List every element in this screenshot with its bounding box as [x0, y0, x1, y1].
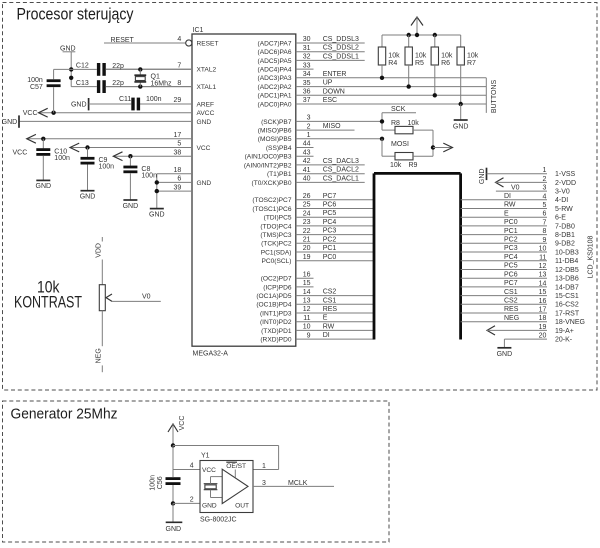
svg-text:(ADC7)PA7: (ADC7)PA7	[258, 40, 292, 47]
svg-text:11: 11	[303, 315, 310, 322]
wire net PC7 pin 26 to bus	[296, 193, 374, 200]
svg-text:(SCK)PB7: (SCK)PB7	[261, 119, 292, 126]
IC1 right pin-name (TDI)PC5	[264, 215, 292, 222]
svg-text:DI: DI	[323, 332, 330, 339]
resistor R6 10k	[431, 35, 453, 98]
IC1 right pin-name (ADC5)PA5	[258, 58, 292, 65]
LCD pin 12 net PC5	[461, 263, 579, 274]
svg-text:15: 15	[303, 280, 311, 287]
capacitor C11 100n with ground bar	[71, 96, 162, 111]
capacitor C10 100n with junction and ground	[36, 137, 70, 191]
IC IC1 MEGA32-A body	[192, 27, 296, 358]
stub pin 43	[296, 149, 314, 156]
wire net DI pin 9 to bus	[296, 332, 374, 339]
wire net PC2 pin 21 to bus	[296, 236, 374, 243]
svg-text:(TOSC2)PC7: (TOSC2)PC7	[252, 197, 291, 204]
svg-text:13: 13	[303, 298, 311, 305]
svg-text:(TOSC1)PC6: (TOSC1)PC6	[252, 206, 291, 213]
svg-text:RES: RES	[323, 306, 338, 313]
svg-text:37: 37	[303, 97, 311, 104]
svg-text:32: 32	[303, 54, 311, 61]
IC1 left pin-name XTAL2	[197, 67, 217, 74]
svg-text:GND: GND	[202, 503, 217, 510]
svg-text:13-DB6: 13-DB6	[555, 276, 579, 283]
svg-text:PC2: PC2	[323, 236, 337, 243]
svg-text:16: 16	[539, 298, 547, 305]
IC1 right pin-name (AIN1/OC0)PB3	[245, 154, 292, 161]
wire net PC0 pin 19 to bus	[296, 254, 374, 261]
svg-text:E: E	[323, 315, 328, 322]
svg-text:100n: 100n	[149, 475, 156, 491]
IC1 right pin-name (INT0)PD2	[260, 319, 292, 326]
svg-text:CS_DDSL3: CS_DDSL3	[323, 36, 359, 43]
svg-text:MCLK: MCLK	[288, 480, 308, 487]
IC1 right pin-name (OC2)PD7	[261, 276, 292, 283]
svg-text:VDD: VDD	[95, 243, 102, 258]
LCD pin 10 net PC3	[461, 245, 579, 256]
bus bar right vertical	[459, 173, 462, 339]
IC1 right pin-name (T0/XCK)PB0	[252, 180, 292, 187]
wire net E pin 11 to bus	[296, 315, 374, 322]
node MOSI label + vertical	[380, 137, 409, 157]
power VCC arrow (buttons)	[411, 17, 423, 35]
svg-text:20-K-: 20-K-	[555, 337, 573, 344]
svg-text:GND: GND	[80, 194, 96, 201]
wire net CS_DDSL2 pin 31	[296, 45, 365, 52]
svg-text:10k: 10k	[441, 53, 453, 60]
LCD pin 11 net PC4	[461, 254, 579, 265]
svg-text:3: 3	[542, 185, 546, 192]
IC1 right pin-name (ADC1)PA1	[258, 93, 292, 100]
LCD pin 18 net NEG	[461, 315, 585, 326]
IC1 right pin-name (TMS)PC3	[260, 232, 291, 239]
svg-text:25: 25	[303, 202, 311, 209]
svg-text:VCC: VCC	[202, 467, 216, 474]
LCD pin 2 VDD with arrow	[496, 176, 577, 187]
svg-text:CS_DACL1: CS_DACL1	[323, 175, 359, 182]
wire net CS_DACL1 pin 40	[296, 175, 365, 182]
svg-text:(ADC2)PA2: (ADC2)PA2	[258, 84, 292, 91]
svg-text:10-DB3: 10-DB3	[555, 249, 579, 256]
svg-text:(ADC3)PA3: (ADC3)PA3	[258, 75, 292, 82]
svg-text:DI: DI	[504, 193, 511, 200]
svg-text:18: 18	[174, 167, 182, 174]
svg-text:LCD_KS0108: LCD_KS0108	[587, 235, 594, 278]
svg-text:(AIN0/INT2)PB2: (AIN0/INT2)PB2	[244, 162, 292, 169]
svg-text:MISO: MISO	[323, 123, 341, 130]
wire net PC6 pin 25 to bus	[296, 202, 374, 209]
svg-text:31: 31	[303, 45, 311, 52]
svg-text:17: 17	[539, 307, 547, 314]
svg-text:8-DB1: 8-DB1	[555, 232, 575, 239]
svg-text:VCC: VCC	[197, 145, 211, 152]
wire XTAL1 pin 8	[106, 80, 192, 87]
svg-text:4-DI: 4-DI	[555, 197, 568, 204]
svg-text:CS1: CS1	[504, 289, 518, 296]
wire net UP pin 35	[296, 80, 487, 87]
svg-text:PC5: PC5	[504, 263, 518, 270]
svg-text:R4: R4	[388, 60, 397, 67]
svg-text:8: 8	[542, 228, 546, 235]
svg-text:PC4: PC4	[504, 254, 518, 261]
svg-text:35: 35	[303, 80, 311, 87]
svg-text:(INT0)PD2: (INT0)PD2	[260, 319, 292, 326]
svg-text:CS_DACL3: CS_DACL3	[323, 158, 359, 165]
IC1 right pin-name (ADC0)PA0	[258, 101, 292, 108]
svg-text:19: 19	[539, 324, 547, 331]
svg-text:SG-8002JC: SG-8002JC	[200, 517, 237, 524]
wire net MCLK pin 3	[253, 480, 334, 487]
svg-text:PC7: PC7	[323, 193, 337, 200]
capacitor C12 22p	[54, 63, 192, 76]
svg-text:100n: 100n	[146, 96, 162, 103]
svg-text:MEGA32-A: MEGA32-A	[193, 351, 229, 358]
svg-text:43: 43	[303, 149, 311, 156]
wire buttons bracket	[485, 78, 487, 113]
wire OE/ST loop	[173, 446, 279, 471]
svg-text:AREF: AREF	[197, 101, 215, 108]
svg-text:18: 18	[539, 315, 547, 322]
wire right vertical R8-R9 with junction and arrow	[431, 130, 453, 156]
svg-text:11-DB4: 11-DB4	[555, 258, 578, 265]
junction dot OE loop	[171, 443, 175, 447]
svg-text:Generator 25Mhz: Generator 25Mhz	[11, 407, 118, 423]
svg-text:(ADC1)PA1: (ADC1)PA1	[258, 93, 292, 100]
stub pin 44	[296, 141, 314, 148]
Y1 inside labels	[202, 462, 249, 509]
wire VCC pin 4	[173, 446, 200, 470]
svg-text:22p: 22p	[112, 80, 124, 87]
svg-text:VCC: VCC	[23, 110, 38, 117]
ground symbol (generator)	[166, 503, 183, 532]
IC1 right pin-name (TOSC1)PC6	[252, 206, 291, 213]
svg-text:39: 39	[174, 184, 182, 191]
svg-text:33: 33	[303, 62, 311, 69]
svg-text:PC3: PC3	[504, 245, 518, 252]
svg-text:12: 12	[539, 263, 547, 270]
svg-text:DOWN: DOWN	[323, 88, 345, 95]
svg-text:GND: GND	[453, 123, 469, 130]
svg-text:VCC: VCC	[13, 150, 28, 157]
svg-text:NEG: NEG	[95, 348, 102, 363]
svg-text:GND: GND	[149, 211, 165, 218]
section box: Generator 25Mhz	[3, 401, 390, 542]
LCD pin 16 net CS2	[461, 298, 579, 309]
svg-text:13: 13	[539, 272, 547, 279]
wire net CS_DDSL3 pin 30	[296, 36, 365, 43]
svg-text:9-DB2: 9-DB2	[555, 241, 575, 248]
pin number 6 wire GND	[157, 176, 192, 183]
svg-text:(MOSI)PB5: (MOSI)PB5	[258, 136, 292, 143]
svg-text:RW: RW	[504, 202, 516, 209]
svg-text:GND: GND	[60, 45, 76, 52]
svg-text:R6: R6	[441, 60, 450, 67]
svg-text:4: 4	[542, 193, 546, 200]
svg-text:10: 10	[303, 324, 311, 331]
svg-text:RESET: RESET	[197, 40, 219, 47]
IC1 left pin-name AREF	[197, 101, 215, 108]
bus bar left vertical	[373, 173, 376, 339]
svg-text:GND: GND	[2, 119, 18, 126]
wire GND pin 2	[171, 497, 200, 506]
wire net PC5 pin 24 to bus	[296, 210, 374, 217]
svg-text:PC3: PC3	[323, 228, 337, 235]
wire net PC1 pin 20 to bus	[296, 245, 374, 252]
svg-text:MOSI: MOSI	[391, 141, 409, 148]
IC1 right pin-name (OC1B)PD4	[256, 302, 292, 309]
svg-text:RESET: RESET	[111, 37, 135, 44]
svg-text:7-DB0: 7-DB0	[555, 223, 575, 230]
wire AVCC pin 27 with VCC arrow	[23, 108, 192, 117]
wire VCC pin 5 with arrow	[70, 141, 192, 152]
IC1 right pin-name (MISO)PB6	[258, 128, 292, 135]
section box: Procesor sterujacy	[3, 3, 598, 391]
wire net ESC pin 37	[296, 97, 487, 104]
svg-text:(RXD)PD0: (RXD)PD0	[260, 337, 291, 344]
svg-text:(ADC4)PA4: (ADC4)PA4	[258, 67, 292, 74]
oscillator Y1 SG-8002JC body	[200, 453, 253, 524]
svg-text:100n: 100n	[141, 172, 157, 179]
svg-text:1-VSS: 1-VSS	[555, 171, 576, 178]
svg-text:38: 38	[174, 149, 182, 156]
svg-text:C56: C56	[157, 476, 164, 489]
svg-text:5: 5	[177, 141, 181, 148]
svg-text:(OC1B)PD4: (OC1B)PD4	[256, 302, 292, 309]
svg-text:UP: UP	[323, 80, 333, 87]
LCD pin 17 net RES	[461, 306, 580, 317]
svg-text:22: 22	[303, 228, 311, 235]
svg-text:(TDO)PC4: (TDO)PC4	[260, 223, 291, 230]
svg-text:8: 8	[177, 80, 181, 87]
IC1 right pin-name (RXD)PD0	[260, 337, 291, 344]
svg-text:2: 2	[190, 497, 194, 504]
LCD pin 14 net PC7	[461, 280, 579, 291]
svg-text:40: 40	[303, 176, 311, 183]
LCD pin 3 net V0	[496, 184, 570, 195]
svg-text:GND: GND	[36, 183, 52, 190]
svg-text:23: 23	[303, 219, 311, 226]
resistor R7 10k	[457, 35, 479, 106]
IC1 right pin-name (ICP)PD6	[263, 284, 292, 291]
svg-text:1: 1	[262, 463, 266, 470]
svg-text:IC1: IC1	[193, 27, 204, 34]
svg-text:3-V0: 3-V0	[555, 189, 570, 196]
svg-text:PC1(SDA): PC1(SDA)	[261, 249, 292, 256]
svg-text:6-E: 6-E	[555, 215, 566, 222]
svg-text:R9: R9	[409, 162, 418, 169]
svg-text:(ICP)PD6: (ICP)PD6	[263, 284, 292, 291]
svg-text:11: 11	[539, 254, 546, 261]
LCD pin 9 net PC2	[461, 237, 575, 248]
wire net PC3 pin 22 to bus	[296, 228, 374, 235]
svg-text:5-RW: 5-RW	[555, 206, 573, 213]
svg-text:10k: 10k	[390, 162, 402, 169]
svg-text:34: 34	[303, 71, 311, 78]
svg-text:(TDI)PC5: (TDI)PC5	[264, 215, 292, 222]
stub pin 33	[296, 62, 314, 69]
svg-text:PC6: PC6	[504, 271, 518, 278]
svg-text:4: 4	[177, 36, 181, 43]
svg-text:AVCC: AVCC	[197, 110, 215, 117]
svg-text:6: 6	[542, 211, 546, 218]
svg-text:NEG: NEG	[504, 315, 519, 322]
svg-text:(TCK)PC2: (TCK)PC2	[261, 241, 292, 248]
svg-text:RW: RW	[323, 323, 335, 330]
LCD pin 5 net RW	[461, 202, 574, 213]
svg-text:15: 15	[539, 289, 547, 296]
capacitor C9 100n with junction and ground	[80, 145, 114, 200]
IC1 right pin-name (TOSC2)PC7	[252, 197, 291, 204]
svg-text:V0: V0	[142, 293, 151, 300]
resistor R5 10k	[405, 35, 427, 89]
svg-text:R5: R5	[415, 60, 424, 67]
svg-text:OUT: OUT	[235, 503, 249, 510]
svg-text:PC2: PC2	[504, 237, 518, 244]
LCD pin 7 net PC0	[461, 219, 575, 230]
potentiometer 10k KONTRAST	[14, 237, 161, 372]
svg-text:30: 30	[303, 36, 311, 43]
LCD pin 6 net E	[461, 210, 567, 221]
wire net CS1 pin 13 to bus	[296, 297, 374, 304]
resistor R9 10k	[382, 153, 433, 170]
svg-text:C57: C57	[30, 84, 43, 91]
svg-text:BUTTONS: BUTTONS	[491, 80, 498, 114]
svg-text:3: 3	[262, 480, 266, 487]
IC1 right pin-name (ADC7)PA7	[258, 40, 292, 47]
wire net CS_DACL3 pin 42	[296, 158, 365, 165]
svg-text:GND: GND	[497, 351, 513, 358]
svg-text:PC0: PC0	[323, 254, 337, 261]
ground below R7	[453, 104, 469, 130]
junction dots on GND vertical	[69, 67, 73, 80]
svg-text:PC5: PC5	[323, 210, 337, 217]
svg-text:2: 2	[542, 176, 546, 183]
svg-text:2: 2	[307, 123, 311, 130]
svg-text:CS_DDSL1: CS_DDSL1	[323, 53, 359, 60]
svg-text:PC1: PC1	[323, 245, 337, 252]
svg-text:16: 16	[303, 271, 311, 278]
wire net MISO pin 2	[296, 123, 355, 130]
svg-text:14: 14	[303, 289, 311, 296]
IC1 left pin-name GND	[197, 180, 212, 187]
svg-text:14: 14	[539, 280, 547, 287]
LCD pin 1 VSS with ground	[479, 167, 576, 184]
svg-text:2-VDD: 2-VDD	[555, 180, 576, 187]
svg-text:16Mhz: 16Mhz	[151, 80, 173, 87]
capacitor C57 100n	[27, 69, 60, 112]
svg-text:R8: R8	[391, 120, 400, 127]
svg-text:7: 7	[177, 62, 181, 69]
svg-text:16-CS2: 16-CS2	[555, 302, 579, 309]
pin number 18 wire GND	[157, 167, 192, 174]
LCD pin 8 net PC1	[461, 228, 575, 239]
svg-text:GND: GND	[123, 203, 139, 210]
svg-text:6: 6	[177, 176, 181, 183]
svg-text:(OC2)PD7: (OC2)PD7	[261, 276, 292, 283]
node label BUTTONS	[491, 80, 498, 114]
svg-text:14-DB7: 14-DB7	[555, 284, 579, 291]
svg-text:CS1: CS1	[323, 297, 337, 304]
Y1 internal buffer triangle	[222, 469, 248, 503]
svg-text:Procesor sterujący: Procesor sterujący	[17, 5, 134, 24]
svg-text:26: 26	[303, 193, 311, 200]
svg-text:(ADC0)PA0: (ADC0)PA0	[258, 101, 292, 108]
capacitor C13 22p	[71, 80, 192, 93]
svg-text:15-CS1: 15-CS1	[555, 293, 579, 300]
svg-text:OE/ST: OE/ST	[226, 463, 246, 470]
svg-text:10k: 10k	[415, 53, 427, 60]
IC1 right pin-name (TXD)PD1	[261, 328, 292, 335]
svg-text:(TMS)PC3: (TMS)PC3	[260, 232, 291, 239]
svg-text:10k: 10k	[467, 53, 479, 60]
wire VCC rail	[382, 33, 461, 37]
IC1 right pin-name (OC1A)PD5	[256, 293, 292, 300]
svg-text:20: 20	[303, 245, 311, 252]
IC1 left pin-name GND	[197, 119, 212, 126]
resistor R4 10k	[378, 35, 400, 80]
wire net RES pin 12 to bus	[296, 306, 374, 313]
node RESET wire, pin 4, inverting circle	[104, 36, 192, 46]
ground symbol top (for C12/C13)	[60, 45, 76, 86]
svg-text:GND: GND	[71, 101, 87, 108]
svg-text:22p: 22p	[112, 63, 124, 70]
LCD pin 15 net CS1	[461, 289, 579, 300]
wire SCK pin 3	[296, 115, 382, 122]
IC1 right pin-name (AIN0/INT2)PB2	[244, 162, 292, 169]
svg-text:R7: R7	[467, 60, 476, 67]
IC1 right pin-name (SCK)PB7	[261, 119, 292, 126]
svg-text:CS2: CS2	[323, 289, 337, 296]
IC1 right pin-name (MOSI)PB5	[258, 136, 292, 143]
svg-text:100n: 100n	[99, 164, 115, 171]
svg-text:17: 17	[174, 132, 182, 139]
wire net CS_DACL2 pin 41	[296, 167, 365, 174]
wire net DOWN pin 36	[296, 88, 487, 95]
svg-text:SCK: SCK	[391, 106, 406, 113]
svg-text:24: 24	[303, 210, 311, 217]
svg-text:V0: V0	[511, 184, 520, 191]
capacitor C56 100n	[149, 470, 180, 504]
svg-text:100n: 100n	[54, 155, 70, 162]
svg-text:36: 36	[303, 89, 311, 96]
ground symbol + wire pin 28 GND	[2, 115, 192, 127]
wire AREF pin 29	[140, 97, 192, 104]
ground rail junctions and symbol for pins 18 6 39	[149, 174, 165, 219]
svg-text:12-DB5: 12-DB5	[555, 267, 579, 274]
svg-text:ENTER: ENTER	[323, 71, 347, 78]
svg-text:VCC: VCC	[179, 416, 186, 431]
wire MOSI pin 1	[296, 132, 382, 139]
svg-text:1: 1	[307, 132, 311, 139]
svg-text:42: 42	[303, 158, 311, 165]
IC1 left pin-name AVCC	[197, 110, 215, 117]
LCD pin 13 net PC6	[461, 271, 579, 282]
IC1 left pin-name VCC	[197, 145, 211, 152]
svg-text:PC0(SCL): PC0(SCL)	[261, 258, 291, 265]
svg-text:GND: GND	[479, 169, 486, 185]
stub pin 16	[296, 271, 314, 278]
svg-text:19: 19	[303, 254, 311, 261]
capacitor C8 100n with junction and ground	[123, 154, 157, 210]
bus bar top horizontal	[374, 172, 461, 175]
svg-text:ESC: ESC	[323, 97, 337, 104]
resistor R8 10k	[382, 120, 433, 134]
wire XTAL2 pin 7	[106, 62, 192, 69]
svg-text:PC4: PC4	[323, 219, 337, 226]
IC1 right pin-name PC0(SCL)	[261, 258, 291, 265]
IC1 right pin-name (ADC3)PA3	[258, 75, 292, 82]
svg-text:10: 10	[539, 246, 547, 253]
